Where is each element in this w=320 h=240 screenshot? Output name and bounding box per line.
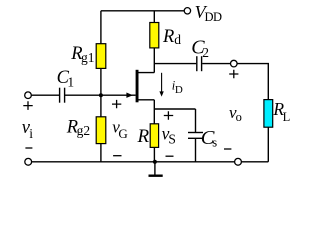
svg-text:L: L [283,110,291,124]
svg-text:g1: g1 [81,50,95,65]
svg-text:d: d [174,32,181,47]
svg-text:o: o [236,110,242,124]
svg-text:1: 1 [67,74,74,89]
svg-text:DD: DD [205,10,223,24]
svg-text:R: R [162,27,174,47]
svg-text:R: R [137,126,150,147]
svg-text:S: S [168,132,176,147]
svg-text:i: i [29,126,33,141]
svg-text:g2: g2 [77,123,91,138]
svg-text:D: D [175,84,183,96]
svg-text:2: 2 [202,45,209,60]
svg-text:G: G [118,126,127,141]
svg-text:s: s [212,135,217,149]
